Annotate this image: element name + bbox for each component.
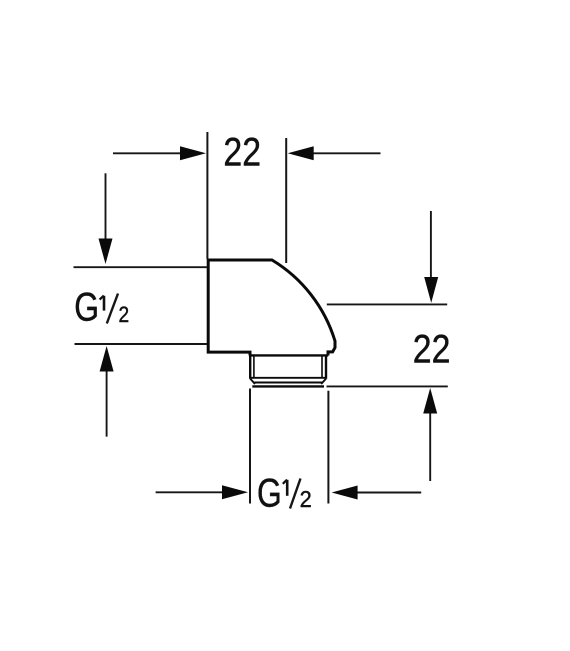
left G1/2 bore bottom line bbox=[75, 343, 208, 345]
right dim top line bbox=[327, 303, 447, 305]
svg-text:22: 22 bbox=[223, 130, 261, 174]
svg-text:G: G bbox=[74, 284, 99, 329]
left G1/2 down arrow wire bbox=[105, 173, 107, 239]
elbow body outline bbox=[208, 260, 335, 355]
thread top edge bbox=[249, 354, 328, 356]
svg-text:22: 22 bbox=[413, 327, 451, 371]
bottom G1/2 left extension line bbox=[249, 389, 251, 504]
thread left inner line bbox=[253, 355, 255, 377]
svg-text:2: 2 bbox=[300, 486, 312, 512]
right dim down arrowhead bbox=[424, 277, 438, 303]
right dim bottom line bbox=[327, 385, 448, 387]
left G1/2 down arrowhead bbox=[99, 239, 113, 265]
top dim left arrowhead bbox=[180, 146, 206, 160]
left G1/2 up arrow wire bbox=[106, 371, 108, 437]
top dim right extension line bbox=[285, 138, 287, 263]
top dim right arrowhead bbox=[288, 146, 314, 160]
thread left chamfer diagonal bbox=[250, 379, 255, 384]
thread right chamfer diagonal bbox=[321, 379, 326, 384]
thread chamfer ring line 1 bbox=[250, 377, 325, 379]
bottom G1/2 left arrowhead bbox=[222, 485, 248, 499]
thread left outer edge bbox=[249, 355, 251, 378]
svg-text:G: G bbox=[257, 470, 282, 515]
top dim left extension line bbox=[206, 132, 208, 259]
bottom G1/2 left arrow wire bbox=[156, 491, 223, 493]
thread chamfer ring line 2 bbox=[254, 382, 322, 384]
svg-text:2: 2 bbox=[119, 303, 130, 328]
top dim left arrow wire bbox=[113, 152, 182, 154]
bottom G1/2 right extension line bbox=[327, 391, 329, 504]
right dim up arrow wire bbox=[429, 413, 431, 482]
right dim up arrowhead bbox=[423, 388, 437, 414]
top dim right arrow wire bbox=[314, 152, 381, 154]
right dim down arrow wire bbox=[430, 211, 432, 278]
left G1/2 up arrowhead bbox=[100, 346, 114, 372]
thread bottom edge bbox=[252, 385, 324, 387]
thread right inner line bbox=[321, 355, 323, 377]
thread right outer edge bbox=[325, 355, 327, 378]
left G1/2 label bbox=[74, 284, 129, 329]
bottom G1/2 right arrowhead bbox=[332, 486, 358, 500]
bottom G1/2 label bbox=[257, 470, 312, 515]
bottom G1/2 right arrow wire bbox=[357, 492, 421, 494]
left G1/2 bore top line bbox=[74, 266, 208, 268]
